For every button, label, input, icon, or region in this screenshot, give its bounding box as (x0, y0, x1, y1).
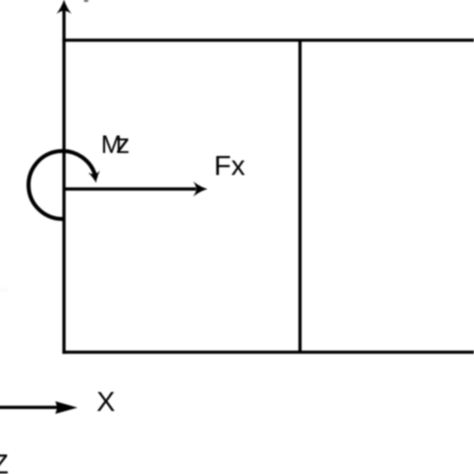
force Fx arrowhead (193, 181, 207, 196)
x-axis arrowhead (55, 401, 77, 414)
clipped y label remnant (84, 0, 88, 2)
beam outline top edge (62, 39, 474, 42)
svg-text:Fx: Fx (214, 150, 245, 181)
y-axis line (left edge of beam) (62, 10, 65, 354)
moment Mz arc (29, 151, 96, 219)
y-axis arrowhead (56, 0, 71, 14)
svg-text:Mz: Mz (101, 128, 130, 159)
svg-text:X: X (97, 386, 116, 417)
x-axis arrow line (0, 406, 58, 409)
faint clipped mark on left edge (0, 288, 8, 293)
section divider line (298, 40, 301, 352)
beam outline bottom edge (62, 351, 474, 354)
moment Mz arrowhead (88, 170, 102, 183)
svg-text:Z: Z (0, 449, 9, 474)
force Fx arrow line (64, 187, 196, 190)
